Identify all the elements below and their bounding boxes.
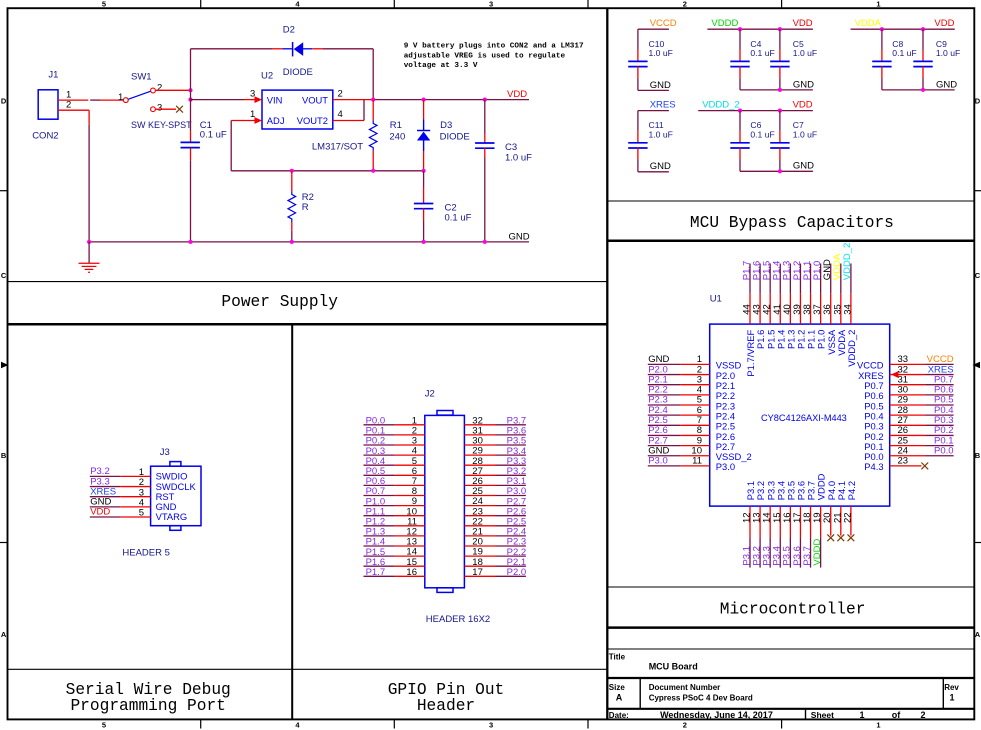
svg-text:Microcontroller: Microcontroller <box>720 601 866 619</box>
J2 pin 22 wire <box>464 525 495 527</box>
svg-text:U1: U1 <box>710 294 722 305</box>
wire C1 to ground rail <box>190 148 192 161</box>
svg-text:2: 2 <box>338 88 343 99</box>
connector J2 body <box>425 415 465 587</box>
J3 pin 5 (VTARG) wire <box>90 516 120 518</box>
U1 pin 17 (P3.6) bottom wire <box>799 506 801 537</box>
junction VIN node <box>188 98 192 102</box>
junction top rail at C5 <box>778 27 782 31</box>
svg-text:Date:: Date: <box>609 711 629 720</box>
ADJ rail wire <box>231 170 423 172</box>
connector J3 body <box>151 466 201 526</box>
svg-text:0.1 uF: 0.1 uF <box>200 130 227 141</box>
J2 pin 21 wire <box>464 535 495 537</box>
title block divider Size/Document <box>639 678 641 709</box>
section divider vertical centre <box>606 8 608 719</box>
wire D2 rail down to VOUT rail <box>372 49 374 100</box>
svg-text:1: 1 <box>118 92 123 103</box>
U1 pin 9 (P2.7) left wire <box>648 445 681 447</box>
connector J1 <box>38 90 58 119</box>
svg-text:VTARG: VTARG <box>156 511 188 522</box>
svg-text:GND: GND <box>793 79 814 90</box>
U1 pin 13 (P3.2) bottom wire <box>759 506 761 537</box>
junction top rail at C6 <box>738 109 742 113</box>
svg-text:0.1 uF: 0.1 uF <box>445 213 472 224</box>
svg-text:2: 2 <box>920 710 925 720</box>
XRES input arrow on U1 pin 32 <box>891 371 899 378</box>
J2 pin 1 wire <box>364 424 395 426</box>
wire VOUT2 loop <box>333 120 364 122</box>
svg-text:C3: C3 <box>505 142 517 153</box>
J2 pin 14 wire <box>364 555 395 557</box>
U1 pin 8 (P2.6) left wire <box>648 434 681 436</box>
U1 pin 42 (P1.5) top wire <box>769 264 771 294</box>
junction top rail at C9 <box>921 27 925 31</box>
J2 pin 12 wire <box>364 535 395 537</box>
svg-text:Title: Title <box>609 653 626 662</box>
junction top rail at C8 <box>880 27 884 31</box>
zone ticks bottom edge <box>200 719 202 728</box>
J2 top tab <box>437 411 453 416</box>
U1 pin 18 (P3.7) bottom wire <box>810 506 812 537</box>
svg-text:2: 2 <box>157 83 162 94</box>
svg-text:C: C <box>1 271 7 280</box>
svg-text:P4.3: P4.3 <box>864 461 883 472</box>
J2 bottom tab <box>437 588 453 593</box>
svg-text:J3: J3 <box>160 447 170 458</box>
J2 pin 16 wire <box>364 575 395 577</box>
svg-text:1: 1 <box>859 710 864 720</box>
svg-text:Document Number: Document Number <box>649 683 721 692</box>
wire SW1 pin2 to node <box>156 89 191 91</box>
J2 pin 8 wire <box>364 495 395 497</box>
svg-text:D2: D2 <box>283 24 295 35</box>
svg-text:5: 5 <box>102 721 106 730</box>
svg-text:VDDD: VDDD <box>711 18 738 29</box>
svg-text:240: 240 <box>389 132 405 143</box>
svg-text:23: 23 <box>898 456 909 467</box>
wire J1 pin2 down to ground rail <box>58 109 89 111</box>
title block divider Date/Sheet <box>805 709 807 720</box>
svg-text:CON2: CON2 <box>32 131 58 142</box>
zone centre arrow right edge <box>973 362 981 368</box>
svg-text:1.0 uF: 1.0 uF <box>649 48 673 58</box>
capacitor C1 <box>181 141 200 143</box>
wire ADJ pin left and down <box>231 120 255 122</box>
J2 pin 7 wire <box>364 484 395 486</box>
wire bottom rail to GND <box>740 170 813 172</box>
svg-text:U2: U2 <box>261 70 273 81</box>
svg-text:0.1 uF: 0.1 uF <box>750 130 774 140</box>
svg-text:0.1 uF: 0.1 uF <box>892 48 916 58</box>
junction ground rail at C2 <box>422 240 426 244</box>
J2 pin 26 wire <box>464 484 495 486</box>
wire vertical input node <box>190 49 192 91</box>
svg-text:5: 5 <box>139 508 144 519</box>
J3 bottom tab <box>170 526 181 531</box>
title block top line <box>607 648 974 650</box>
svg-text:HEADER 16X2: HEADER 16X2 <box>426 614 490 625</box>
U1 pin 24 (P0.0) right wire <box>890 455 925 457</box>
J2 pin 4 wire <box>364 454 395 456</box>
U1 pin 5 (P2.3) left wire <box>648 404 681 406</box>
U1 pin 22 (P4.2) bottom wire <box>850 506 852 535</box>
svg-text:C: C <box>975 271 981 280</box>
capacitor C7 <box>779 111 781 131</box>
J2 pin 19 wire <box>464 555 495 557</box>
junction ground rail at C3 <box>483 240 487 244</box>
svg-text:VDDD: VDDD <box>812 539 823 566</box>
U1 pin 19 (VDDD) bottom wire <box>820 506 822 537</box>
J2 pin 20 wire <box>464 545 495 547</box>
svg-text:MCU Board: MCU Board <box>649 661 698 671</box>
no-connect X on SW1 pin3 <box>176 106 183 113</box>
wire top rail VDDD / VDD <box>707 28 813 30</box>
J2 pin 10 wire <box>364 515 395 517</box>
U2 VIN input arrow <box>255 96 263 103</box>
zone centre arrow left edge <box>1 362 9 368</box>
svg-text:11: 11 <box>692 456 702 467</box>
svg-text:1.0 uF: 1.0 uF <box>793 48 817 58</box>
junction D3 bottom <box>422 169 426 173</box>
J3 pin 1 (SWDIO) wire <box>90 475 120 477</box>
svg-text:GND: GND <box>650 80 671 91</box>
svg-text:B: B <box>975 451 981 460</box>
svg-text:adjustable VREG is used to reg: adjustable VREG is used to regulate <box>404 52 566 60</box>
wire node to VIN pin <box>191 99 245 101</box>
U1 pin 32 (XRES) right wire <box>890 374 925 376</box>
U1 pin 20 (P4.0) bottom wire <box>830 506 832 535</box>
svg-text:D: D <box>975 96 981 105</box>
U1 pin 36 (VSSA) top wire <box>830 264 832 294</box>
junction R2 top <box>290 169 294 173</box>
svg-text:VDD: VDD <box>793 18 813 29</box>
J3 pin 3 (RST) wire <box>90 496 120 498</box>
svg-text:ADJ: ADJ <box>267 115 285 126</box>
svg-text:16: 16 <box>406 567 417 578</box>
diode D2 top rail <box>191 48 273 50</box>
wire VCCD to C10 <box>638 28 669 30</box>
microcontroller title band <box>607 586 974 588</box>
bypass caps title band <box>607 200 974 202</box>
svg-text:VOUT2: VOUT2 <box>297 115 328 126</box>
svg-text:A: A <box>1 630 7 639</box>
U1 pin 1 (VSSD) left wire <box>648 363 681 365</box>
svg-text:J2: J2 <box>425 389 435 400</box>
svg-text:VIN: VIN <box>267 94 283 105</box>
title block row line below Title <box>607 677 974 679</box>
junction VOUT node <box>371 98 375 102</box>
U1 pin 2 (P2.0) left wire <box>648 374 681 376</box>
J2 pin 18 wire <box>464 565 495 567</box>
svg-text:1: 1 <box>876 721 880 730</box>
resistor R2 <box>291 171 293 192</box>
svg-text:4: 4 <box>295 721 300 730</box>
U1 pin 28 (P0.4) right wire <box>890 414 925 416</box>
svg-text:Wednesday, June 14, 2017: Wednesday, June 14, 2017 <box>660 710 773 720</box>
svg-text:DIODE: DIODE <box>283 67 313 78</box>
svg-text:1.0 uF: 1.0 uF <box>649 130 673 140</box>
U1 pin 10 (VSSD_2) left wire <box>648 455 681 457</box>
svg-text:22: 22 <box>842 512 853 523</box>
junction ground rail at J1 branch <box>87 240 91 244</box>
U1 pin 35 (VDDA) top wire <box>840 264 842 294</box>
svg-text:VDDD_2: VDDD_2 <box>842 243 853 281</box>
capacitor C11 <box>628 142 647 144</box>
J2 pin 30 wire <box>464 444 495 446</box>
junction bottom rail at C7 <box>778 169 782 173</box>
J2 pin 32 wire <box>464 424 495 426</box>
U1 pin 7 (P2.5) left wire <box>648 424 681 426</box>
capacitor C6 <box>739 111 741 131</box>
capacitor C2 <box>423 171 425 187</box>
VDD rail wire <box>373 99 529 101</box>
svg-text:R: R <box>302 202 309 213</box>
wire bottom rail to GND <box>882 89 955 91</box>
svg-text:J1: J1 <box>48 69 58 80</box>
svg-text:P3.0: P3.0 <box>716 461 735 472</box>
J2 pin 27 wire <box>464 474 495 476</box>
J2 pin 2 wire <box>364 434 395 436</box>
wire C11 to GND <box>637 148 639 160</box>
capacitor C10 <box>628 60 647 62</box>
svg-text:of: of <box>892 710 901 720</box>
svg-text:A: A <box>975 630 981 639</box>
voltage regulator U2 <box>262 90 333 129</box>
svg-text:XRES: XRES <box>650 99 676 110</box>
svg-text:P1.7: P1.7 <box>366 567 386 578</box>
U1 pin 44 (P1.7/VREF) top wire <box>749 264 751 294</box>
svg-text:R1: R1 <box>390 120 402 131</box>
J2 pin 3 wire <box>364 444 395 446</box>
svg-text:voltage at 3.3 V: voltage at 3.3 V <box>404 62 478 70</box>
svg-text:B: B <box>1 451 7 460</box>
capacitor C8 <box>881 29 883 49</box>
svg-text:VDD: VDD <box>793 99 813 110</box>
J2 pin 23 wire <box>464 515 495 517</box>
svg-text:3: 3 <box>157 102 162 113</box>
U1 pin 16 (P3.5) bottom wire <box>789 506 791 537</box>
ground rail wire <box>89 241 529 243</box>
svg-text:Size: Size <box>609 683 626 692</box>
capacitor C3 <box>484 100 486 134</box>
svg-text:P3.0: P3.0 <box>648 456 668 467</box>
svg-text:HEADER 5: HEADER 5 <box>122 547 170 558</box>
title block divider Rev <box>942 678 944 709</box>
junction bottom rail at C5 <box>778 88 782 92</box>
zone ticks top edge <box>200 0 202 8</box>
svg-text:GND: GND <box>650 161 671 172</box>
U1 pin 4 (P2.2) left wire <box>648 394 681 396</box>
svg-text:4: 4 <box>338 109 343 120</box>
J2 pin 25 wire <box>464 495 495 497</box>
U1 pin 33 (VCCD) right wire <box>890 363 925 365</box>
U1 pin 21 (P4.1) bottom wire <box>840 506 842 535</box>
svg-text:D3: D3 <box>440 120 452 131</box>
svg-text:VDD: VDD <box>934 18 954 29</box>
J3 pin 4 (GND) wire <box>90 506 120 508</box>
switch SW1 <box>123 98 128 103</box>
svg-text:1.0 uF: 1.0 uF <box>793 130 817 140</box>
U1 pin 15 (P3.4) bottom wire <box>779 506 781 537</box>
svg-text:1: 1 <box>949 693 954 703</box>
J2 pin 11 wire <box>364 525 395 527</box>
title block row line below Size <box>607 708 974 710</box>
U1 pin 27 (P0.3) right wire <box>890 424 925 426</box>
svg-text:MCU Bypass Capacitors: MCU Bypass Capacitors <box>690 214 894 232</box>
U1 pin 43 (P1.6) top wire <box>759 264 761 294</box>
svg-text:1: 1 <box>876 0 880 9</box>
J2 pin 17 wire <box>464 575 495 577</box>
J2 pin 9 wire <box>364 505 395 507</box>
U1 pin 6 (P2.4) left wire <box>648 414 681 416</box>
U1 pin 39 (P1.2) top wire <box>799 264 801 294</box>
svg-text:VDDD_2: VDDD_2 <box>846 330 857 367</box>
U1 pin 11 (P3.0) left wire <box>648 465 681 467</box>
J2 pin 24 wire <box>464 505 495 507</box>
microcontroller U1 body <box>710 324 890 506</box>
junction C3 top <box>483 98 487 102</box>
svg-text:A: A <box>616 693 623 703</box>
U1 pin 31 (P0.7) right wire <box>890 384 925 386</box>
J2 pin 6 wire <box>364 474 395 476</box>
capacitor C9 <box>922 29 924 49</box>
junction bottom rail at C9 <box>921 88 925 92</box>
junction R1 bottom <box>371 169 375 173</box>
svg-text:SW KEY-SPST: SW KEY-SPST <box>131 120 192 130</box>
U1 pin 29 (P0.5) right wire <box>890 404 925 406</box>
svg-text:GND: GND <box>509 231 530 242</box>
J2 pin 5 wire <box>364 464 395 466</box>
svg-text:VDDA: VDDA <box>855 18 882 29</box>
svg-text:2: 2 <box>66 100 71 111</box>
no-connect X on U1 pin 20 <box>827 534 834 541</box>
resistor R1 <box>372 100 374 121</box>
svg-text:3: 3 <box>489 721 493 730</box>
svg-text:VOUT: VOUT <box>302 94 328 105</box>
svg-text:Header: Header <box>417 697 475 715</box>
svg-text:0.1 uF: 0.1 uF <box>750 48 774 58</box>
J2 pin 29 wire <box>464 454 495 456</box>
power supply title band <box>8 281 608 283</box>
SWD / GPIO title band line <box>8 668 608 670</box>
svg-text:Cypress PSoC 4 Dev Board: Cypress PSoC 4 Dev Board <box>649 694 753 703</box>
U1 pin 23 (P4.3) right wire <box>890 465 922 467</box>
junction D3 top <box>422 98 426 102</box>
wire XRES to C11 <box>638 110 669 112</box>
wire top rail VDDA / VDD <box>851 28 955 30</box>
J2 pin 28 wire <box>464 464 495 466</box>
U1 pin 37 (P1.0) top wire <box>820 264 822 294</box>
no-connect X on U1 pin 21 <box>837 534 844 541</box>
svg-text:LM317/SOT: LM317/SOT <box>312 141 363 152</box>
J2 pin 15 wire <box>364 565 395 567</box>
U1 pin 26 (P0.2) right wire <box>890 434 925 436</box>
junction top rail at C4 <box>738 27 742 31</box>
svg-text:1.0 uF: 1.0 uF <box>505 153 532 164</box>
svg-text:Rev: Rev <box>944 683 959 692</box>
U1 pin 12 (P3.1) bottom wire <box>749 506 751 537</box>
no-connect X on U1 pin 23 <box>921 463 928 470</box>
wire bottom rail to GND <box>740 89 813 91</box>
junction ground rail at C1 <box>188 240 192 244</box>
zone ticks left edge <box>0 190 8 192</box>
svg-text:D: D <box>1 96 7 105</box>
svg-text:GND: GND <box>793 161 814 172</box>
junction ground rail at R2 <box>290 240 294 244</box>
U1 pin 25 (P0.1) right wire <box>890 445 925 447</box>
no-connect X on U1 pin 22 <box>848 534 855 541</box>
svg-text:P2.0: P2.0 <box>507 567 527 578</box>
U1 pin 14 (P3.3) bottom wire <box>769 506 771 537</box>
junction SW1 pin2 node <box>188 88 192 92</box>
svg-text:CY8C4126AXI-M443: CY8C4126AXI-M443 <box>761 413 847 423</box>
svg-text:2: 2 <box>683 721 687 730</box>
J3 pin 2 (SWDCLK) wire <box>90 486 120 488</box>
svg-text:P0.0: P0.0 <box>934 445 954 456</box>
svg-text:Power Supply: Power Supply <box>221 293 338 311</box>
wire SW1 pin3 stub <box>156 108 176 110</box>
U1 pin 38 (P1.1) top wire <box>810 264 812 294</box>
wire top rail VDDD_2 / VDD <box>698 110 813 112</box>
J3 top tab <box>170 462 181 467</box>
svg-text:2: 2 <box>683 0 687 9</box>
svg-text:9 V battery plugs into CON2 an: 9 V battery plugs into CON2 and a LM317 <box>404 43 584 51</box>
svg-text:DIODE: DIODE <box>440 132 470 143</box>
U1 pin 3 (P2.1) left wire <box>648 384 681 386</box>
svg-text:5: 5 <box>102 0 106 9</box>
U1 pin 30 (P0.6) right wire <box>890 394 925 396</box>
svg-text:VDDD_2: VDDD_2 <box>702 99 740 110</box>
svg-text:GND: GND <box>936 79 957 90</box>
svg-text:VCCD: VCCD <box>650 18 677 29</box>
wire VOUT pin to VDD rail <box>333 99 373 101</box>
U1 pin 34 (VDDD_2) top wire <box>850 264 852 294</box>
svg-text:VDD: VDD <box>507 89 527 100</box>
U1 pin 41 (P1.4) top wire <box>779 264 781 294</box>
divider between SWD and GPIO sections <box>291 324 293 719</box>
diode D3 <box>423 100 425 120</box>
U1 pin 40 (P1.3) top wire <box>789 264 791 294</box>
J2 pin 31 wire <box>464 434 495 436</box>
svg-text:VDD: VDD <box>90 507 110 518</box>
ground symbol <box>88 242 90 263</box>
svg-text:34: 34 <box>842 304 853 315</box>
wire C10 to GND <box>637 66 639 78</box>
capacitor C5 <box>779 29 781 49</box>
svg-text:Sheet: Sheet <box>811 710 834 720</box>
diode D2 symbol <box>292 42 294 56</box>
zone ticks right edge <box>974 190 981 192</box>
wire J1 pin1 to SW1 <box>58 99 88 101</box>
J2 pin 13 wire <box>364 545 395 547</box>
capacitor C4 <box>739 29 741 49</box>
svg-text:SW1: SW1 <box>131 71 152 82</box>
junction top rail at C7 <box>778 109 782 113</box>
svg-text:P4.2: P4.2 <box>846 481 857 500</box>
svg-text:17: 17 <box>472 567 483 578</box>
U2 ADJ input arrow <box>255 117 263 124</box>
svg-text:Programming Port: Programming Port <box>70 697 225 715</box>
svg-text:1.0 uF: 1.0 uF <box>936 48 960 58</box>
svg-text:3: 3 <box>489 0 493 9</box>
